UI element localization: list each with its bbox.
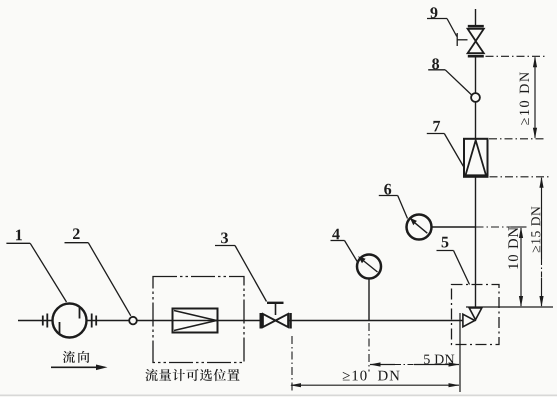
label 6 bbox=[384, 184, 391, 195]
dim text 5 DN bbox=[424, 355, 454, 364]
label 3 leader line bbox=[215, 246, 267, 302]
flow meter symbol (rect with wedge) bbox=[173, 309, 218, 333]
label 4 leader line bbox=[331, 241, 358, 263]
wire riser node8 to filter bbox=[475, 102, 477, 142]
dimension line >=10 DN (bottom) bbox=[291, 384, 459, 386]
dashed box 5 (elbow meter enclosure) bbox=[452, 285, 500, 345]
label 7 leader line bbox=[427, 134, 464, 167]
dim text >=10 DN top right (rotated) bbox=[520, 72, 530, 125]
label 5 bbox=[442, 237, 449, 248]
reference line right of elbow bbox=[466, 306, 553, 308]
label 9 bbox=[430, 7, 437, 18]
wire riser top segment bbox=[475, 9, 477, 26]
label 9 leader line with tick bbox=[427, 19, 468, 47]
label 8 leader line bbox=[428, 70, 472, 95]
flange pair left of pump bbox=[43, 314, 48, 328]
node 2 pressure tap circle bbox=[129, 317, 137, 325]
label 2 bbox=[73, 228, 80, 239]
label 6 leader line bbox=[379, 196, 408, 219]
elbow flow arrow right bbox=[463, 314, 475, 327]
elbow flow arrow down bbox=[469, 308, 482, 320]
dimension line 10 DN (gauge6 line to reference) bbox=[520, 228, 522, 306]
label 3 bbox=[221, 233, 228, 244]
dimension line >=10 DN (top right, valve9 to filter) bbox=[534, 57, 536, 138]
node 8 tap circle bbox=[471, 93, 480, 102]
filter 7 (rect with cone) bbox=[464, 139, 488, 177]
label 4 bbox=[332, 229, 340, 240]
dimension line >=15 DN (filter to reference) bbox=[541, 178, 543, 259]
label 8 bbox=[432, 58, 439, 69]
wire gauge 6 tap to riser bbox=[432, 226, 476, 228]
dim text 10 DN (rotated) bbox=[508, 227, 518, 268]
wire riser valve9 to node8 bbox=[475, 57, 477, 94]
dimension line 5 DN bbox=[370, 364, 395, 366]
text 流量计可选位置 (flow meter optional position) bbox=[145, 369, 157, 381]
label 1 leader line bbox=[6, 243, 66, 302]
wire main pipe left of pump bbox=[18, 320, 53, 322]
label 5 leader line bbox=[437, 251, 470, 285]
label 2 leader line bbox=[65, 243, 131, 316]
valve 9 (vertical globe valve) bbox=[468, 25, 484, 28]
pump 1 (circle with rotor ticks) bbox=[53, 304, 87, 338]
label 7 bbox=[433, 121, 440, 132]
valve 3 (gate valve with stem) bbox=[267, 302, 284, 304]
gauge 4 (pressure gauge) bbox=[368, 279, 370, 321]
wire solid tail of gauge6 extension bbox=[511, 226, 527, 228]
text flow-direction 流向 bbox=[63, 351, 75, 363]
gauge 6 (pressure gauge) bbox=[407, 215, 432, 240]
extension dash-dot lines bbox=[292, 56, 551, 392]
wire main pipe pump to elbow bbox=[87, 320, 464, 322]
dim text >=10 DN bottom bbox=[343, 371, 400, 381]
label 1 bbox=[16, 230, 22, 241]
bottom scan shadow bbox=[0, 395, 557, 397]
wire riser filter to elbow bbox=[475, 175, 477, 308]
flow direction arrow under pump bbox=[51, 366, 98, 368]
dim text >=15 DN (rotated) bbox=[531, 207, 540, 253]
flange pair right of pump bbox=[92, 314, 97, 328]
extension line below box 5 bbox=[459, 313, 461, 392]
dashed box: optional flow-meter position bbox=[153, 277, 244, 363]
